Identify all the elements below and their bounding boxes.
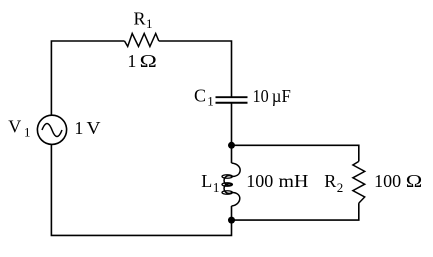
svg-text:C: C bbox=[194, 86, 206, 106]
svg-text:1: 1 bbox=[146, 16, 153, 31]
svg-text:mH: mH bbox=[279, 171, 309, 191]
svg-text:1: 1 bbox=[213, 180, 220, 195]
svg-text:10: 10 bbox=[253, 86, 269, 106]
svg-text:1: 1 bbox=[127, 51, 136, 71]
svg-text:1: 1 bbox=[74, 118, 83, 138]
svg-text:100: 100 bbox=[374, 171, 401, 191]
svg-text:1: 1 bbox=[207, 94, 214, 109]
svg-text:Ω: Ω bbox=[140, 51, 157, 71]
svg-text:Ω: Ω bbox=[406, 171, 423, 191]
svg-text:2: 2 bbox=[337, 180, 344, 195]
svg-text:100: 100 bbox=[246, 171, 273, 191]
svg-text:V: V bbox=[87, 118, 101, 138]
svg-text:µF: µF bbox=[272, 86, 291, 106]
svg-text:V: V bbox=[8, 117, 21, 137]
svg-text:R: R bbox=[134, 9, 146, 29]
svg-text:L: L bbox=[201, 171, 212, 191]
svg-text:1: 1 bbox=[24, 125, 31, 140]
svg-text:R: R bbox=[324, 171, 336, 191]
